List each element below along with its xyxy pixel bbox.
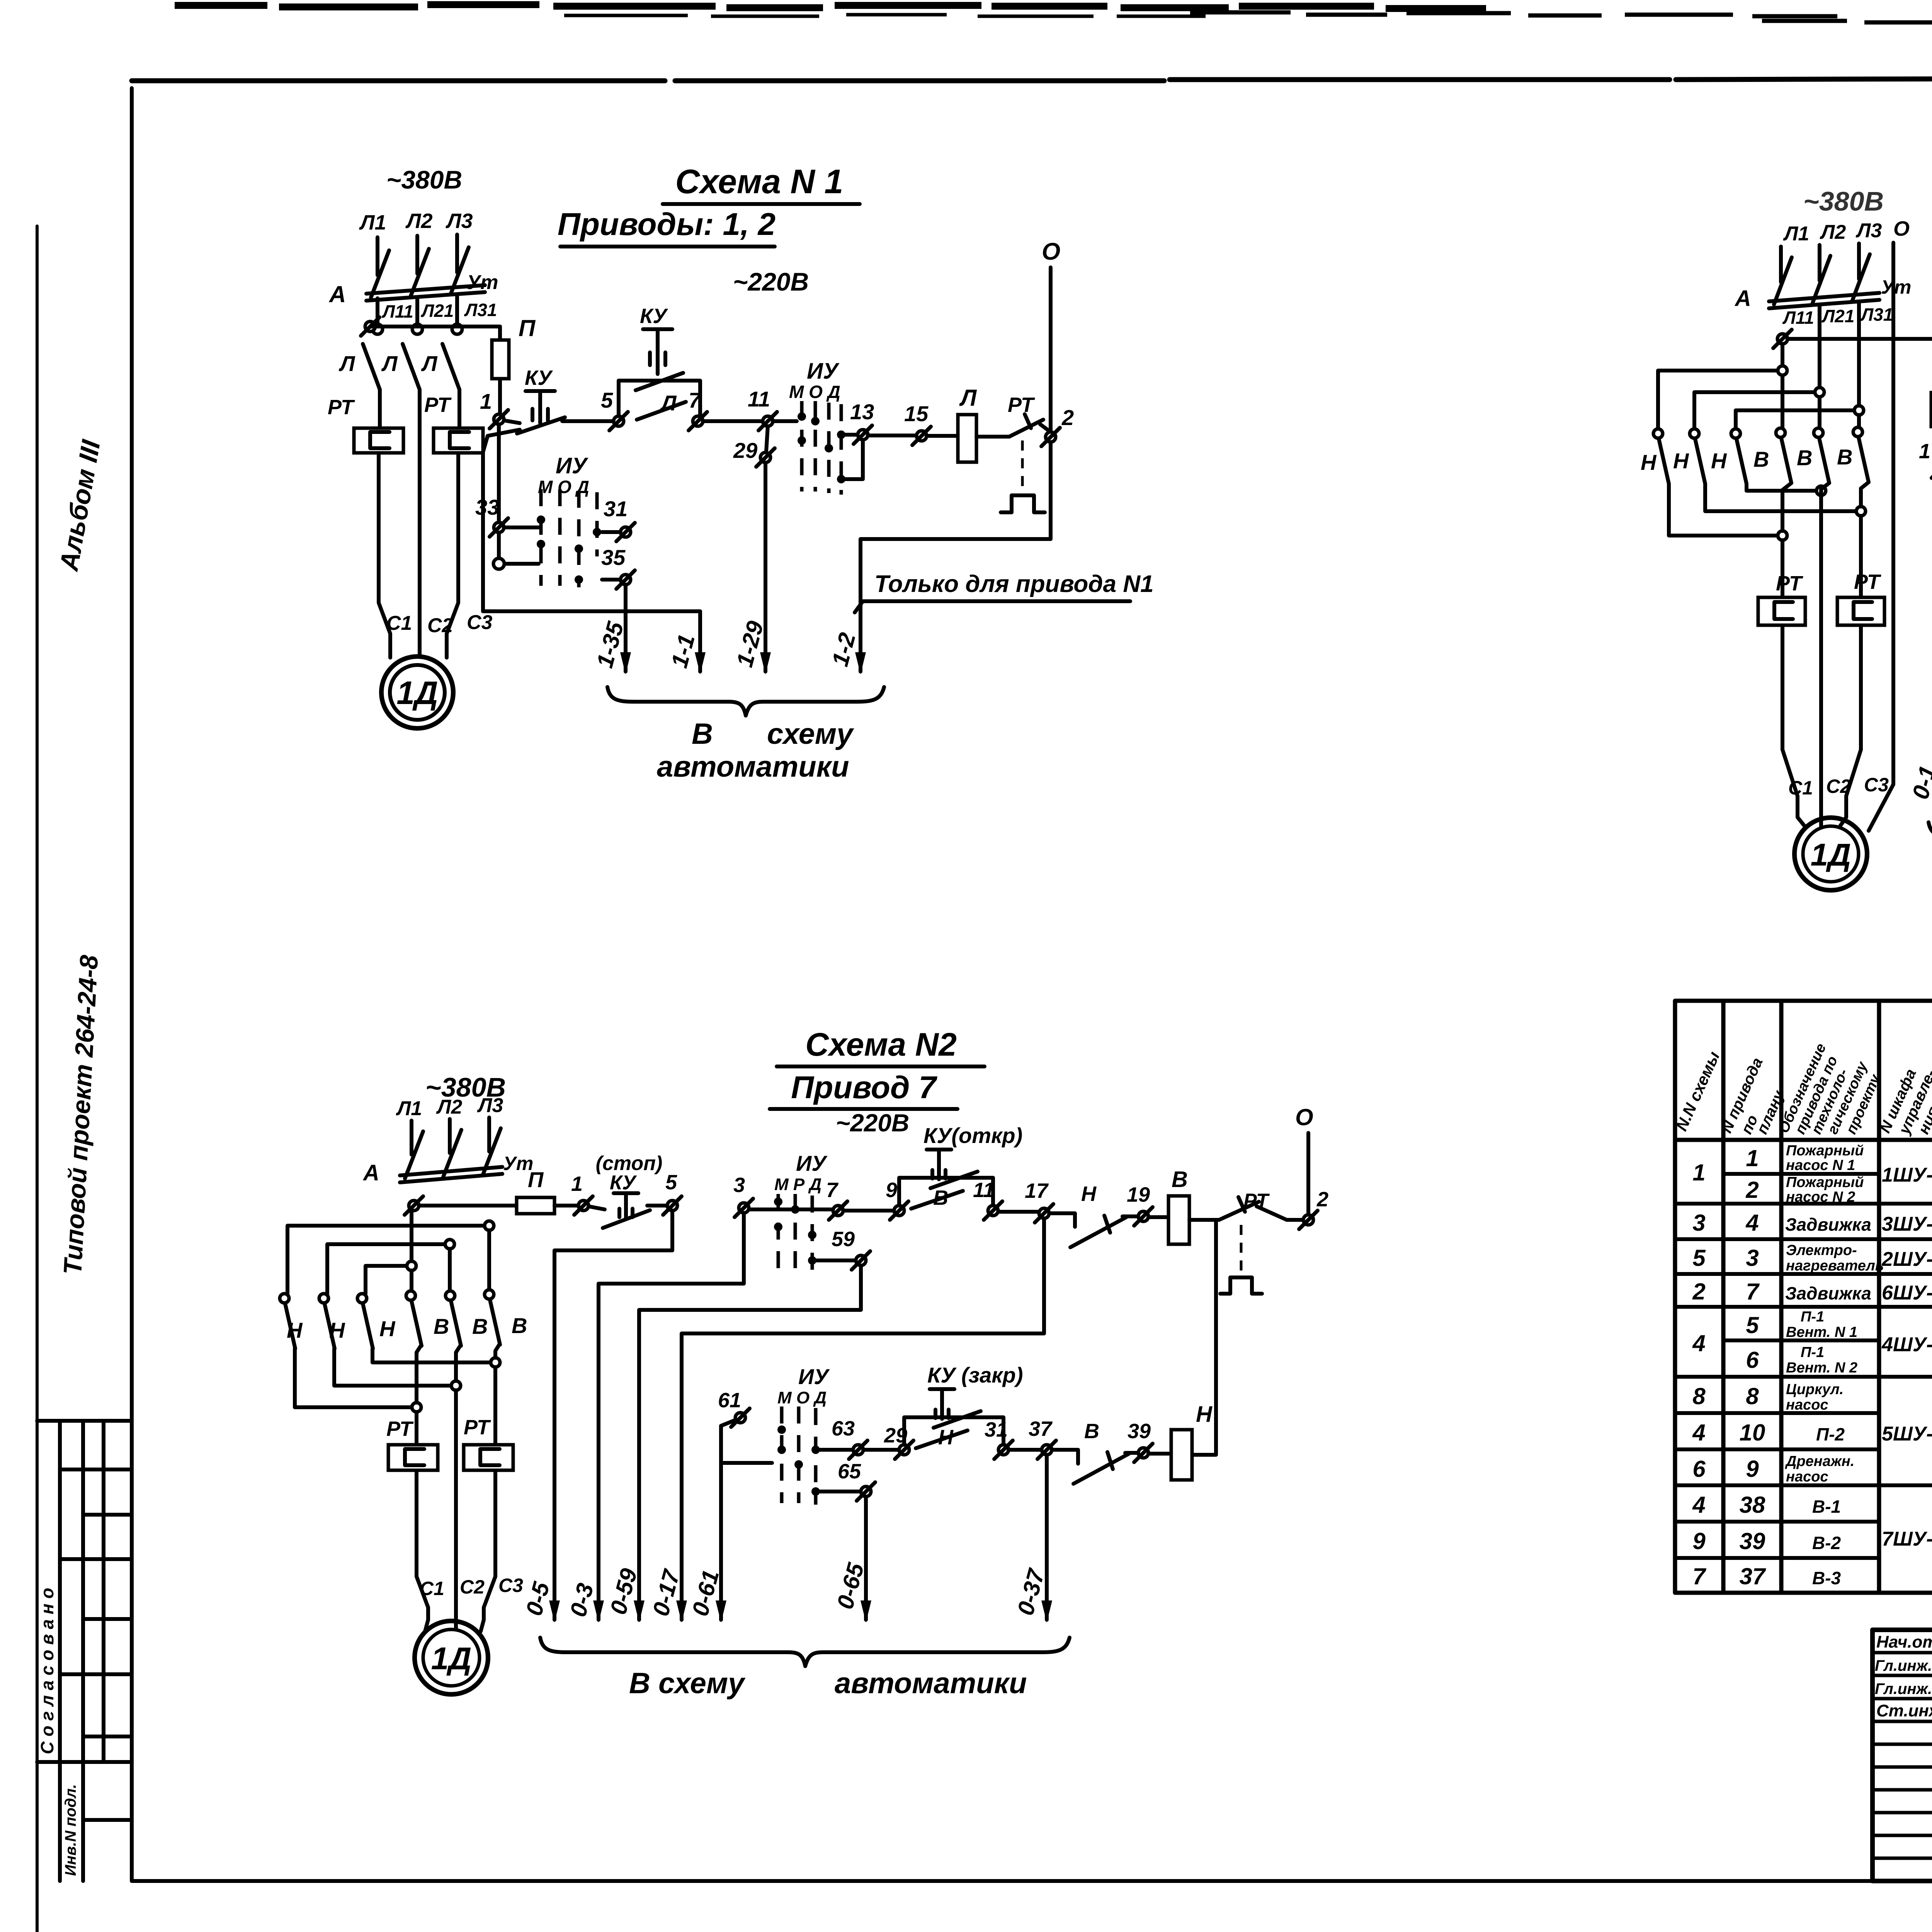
wire 33 to dashed: [504, 526, 539, 529]
motor s3 leads: [1798, 817, 1846, 827]
node 9 s2: [890, 1201, 908, 1220]
svg-text:Пожарный: Пожарный: [1786, 1174, 1864, 1190]
bus3 tap circle s2: [407, 1261, 416, 1270]
frame top line: [132, 77, 1932, 81]
wire to node 31: [602, 530, 621, 534]
svg-text:Только для привода N1: Только для привода N1: [874, 571, 1154, 597]
wire node1 to blade: [504, 420, 520, 423]
РТ heater s2: [1220, 1277, 1262, 1294]
start button КУ plunger: [643, 329, 672, 374]
svg-text:РТ: РТ: [1854, 570, 1881, 594]
svg-text:5: 5: [1692, 1245, 1706, 1271]
node 35: [616, 570, 635, 589]
motor 1Д inner: [390, 665, 445, 720]
svg-text:Л11: Л11: [1782, 308, 1814, 328]
wire 0-65 s2: [864, 1497, 868, 1620]
bus4 tap s3: [1816, 486, 1826, 495]
bus3 tap s3: [1854, 406, 1864, 415]
svg-text:С2: С2: [460, 1576, 485, 1598]
stop button blade s2: [603, 1210, 650, 1228]
svg-text:Л31: Л31: [464, 300, 497, 320]
svg-text:В: В: [692, 718, 713, 750]
svg-text:П-1: П-1: [1801, 1344, 1824, 1361]
wire 1-29 drop: [764, 463, 767, 672]
stub with jaw 1: [376, 298, 379, 323]
svg-text:7: 7: [689, 388, 702, 412]
svg-text:В-3: В-3: [1812, 1568, 1841, 1588]
svg-text:5: 5: [665, 1171, 677, 1194]
node 33: [490, 518, 508, 537]
disconnector blades s3: [1774, 254, 1870, 304]
svg-text:П-1: П-1: [1801, 1309, 1824, 1325]
svg-text:38: 38: [1740, 1492, 1765, 1518]
phase wires s3: [1781, 243, 1859, 282]
svg-text:Л: Л: [338, 351, 355, 376]
bus2 tap circle s2: [445, 1240, 454, 1249]
svg-text:Л: Л: [381, 351, 398, 376]
svg-text:Нач.отд: Нач.отд: [1876, 1633, 1932, 1651]
svg-text:7ШУ-С: 7ШУ-С: [1882, 1528, 1932, 1550]
blade Л1: [363, 344, 380, 389]
phase2 drop to hook5 s2: [448, 1249, 452, 1291]
node 5 s2: [663, 1196, 682, 1215]
node 11 s2: [984, 1201, 1002, 1220]
jaw circle 3: [452, 324, 462, 334]
start button bracket: [619, 381, 700, 416]
РТ contact blade: [1009, 414, 1043, 437]
svg-text:Л: Л: [660, 391, 677, 415]
elbow below node 13: [841, 440, 863, 479]
arrow 1-29: [760, 652, 771, 674]
phase drop 3: [447, 389, 459, 658]
wire 37 to В contact s2: [1052, 1450, 1078, 1464]
svg-text:3: 3: [733, 1173, 745, 1197]
svg-text:Н: Н: [1641, 450, 1657, 474]
bottom bus: [483, 609, 700, 613]
col3 values: [1785, 1143, 1884, 1588]
svg-text:С2: С2: [427, 614, 453, 637]
svg-text:Привод 7: Привод 7: [791, 1070, 937, 1105]
svg-text:Л3: Л3: [1855, 219, 1882, 242]
svg-text:Циркул.: Циркул.: [1786, 1381, 1844, 1398]
svg-text:Л3: Л3: [445, 209, 473, 233]
svg-text:Вент. N 2: Вент. N 2: [1786, 1360, 1857, 1376]
jaw circle 2: [412, 324, 422, 334]
svg-text:15: 15: [904, 401, 929, 426]
svg-text:КУ: КУ: [525, 366, 553, 389]
svg-text:Ут: Ут: [467, 271, 498, 294]
fuse П s3: [1931, 393, 1932, 427]
svg-text:4: 4: [1692, 1420, 1705, 1446]
svg-text:С3: С3: [467, 611, 493, 634]
О wire s3: [1869, 243, 1893, 831]
wire to node63 s2: [820, 1448, 853, 1452]
svg-text:2: 2: [1316, 1188, 1328, 1211]
svg-text:В: В: [1837, 445, 1852, 469]
svg-text:61: 61: [718, 1389, 741, 1412]
node 31: [616, 523, 635, 541]
svg-text:В: В: [1084, 1420, 1099, 1443]
fuse П: [492, 340, 509, 379]
svg-text:РТ: РТ: [386, 1417, 414, 1440]
wire blade to node5: [562, 419, 614, 423]
scan edge dashes top-left: [175, 5, 1486, 9]
wire 19 to coil s2: [1148, 1215, 1168, 1219]
column2 drop s2: [456, 1346, 460, 1620]
svg-text:4: 4: [1745, 1210, 1759, 1236]
wire 31 to 37 s2: [1009, 1448, 1042, 1452]
svg-text:ИУ: ИУ: [556, 453, 588, 478]
РТ box2 s3: [1837, 597, 1884, 625]
svg-text:С1: С1: [386, 612, 412, 634]
svg-text:39: 39: [1128, 1420, 1151, 1443]
contact dots: [798, 412, 845, 483]
subtitle underline: [770, 1107, 957, 1111]
В NC blade s2: [1073, 1452, 1129, 1484]
svg-text:ИУ: ИУ: [796, 1151, 828, 1175]
svg-text:6: 6: [1746, 1347, 1759, 1373]
bus left rise: [483, 430, 520, 611]
РТ blade s2: [1219, 1197, 1259, 1220]
svg-text:33: 33: [475, 495, 499, 519]
bus2 tap s3: [1815, 388, 1824, 397]
node 61 s2: [731, 1408, 750, 1427]
svg-text:11: 11: [748, 387, 770, 411]
РТ box2 s2: [464, 1445, 513, 1470]
node 13: [854, 425, 872, 444]
web bus1 s2: [287, 1226, 484, 1294]
full row lines: [1675, 1204, 1932, 1377]
hook circles s3: [1653, 427, 1862, 438]
arrow 0-65 s2: [861, 1600, 871, 1622]
svg-text:О: О: [1295, 1104, 1313, 1130]
wire 63 to 29 s2: [863, 1448, 899, 1452]
bus right drop: [698, 611, 702, 672]
svg-text:Гл.инж.пр.: Гл.инж.пр.: [1875, 1680, 1932, 1697]
brace s3: [1929, 822, 1932, 851]
node 63 s2: [849, 1440, 867, 1459]
В contact blade s2: [911, 1191, 963, 1209]
svg-text:Пожарный: Пожарный: [1786, 1143, 1864, 1159]
title underline: [777, 1065, 985, 1068]
svg-text:нагреватель: нагреватель: [1786, 1258, 1884, 1274]
svg-text:3ШУ-С: 3ШУ-С: [1882, 1213, 1932, 1235]
outer left line: [36, 226, 39, 1932]
svg-text:насос N 1: насос N 1: [1786, 1157, 1855, 1173]
blade Л2: [403, 344, 420, 389]
svg-text:Н: Н: [329, 1318, 345, 1342]
wire 15 to coil: [927, 434, 958, 438]
stop button КУ plunger: [526, 391, 555, 423]
svg-text:4ШУ-С: 4ШУ-С: [1881, 1333, 1932, 1356]
svg-text:насос: насос: [1786, 1397, 1828, 1413]
node 65 s2: [857, 1482, 875, 1501]
svg-text:Л2: Л2: [436, 1096, 463, 1118]
svg-text:В: В: [1172, 1167, 1188, 1192]
svg-text:М О Д: М О Д: [789, 382, 840, 402]
svg-text:В схему: В схему: [629, 1667, 746, 1700]
wire 11 to 17 s2: [998, 1210, 1039, 1214]
svg-text:9: 9: [1692, 1528, 1706, 1554]
svg-text:3: 3: [1692, 1210, 1705, 1236]
svg-text:Л21: Л21: [421, 301, 454, 321]
node on L1: [361, 317, 379, 336]
arrow 0-17 s2: [676, 1600, 687, 1622]
svg-text:6: 6: [1692, 1456, 1706, 1482]
wire to fuse: [370, 325, 500, 328]
bus6 tap circle s2: [491, 1358, 500, 1367]
jaw circle 1: [372, 324, 383, 334]
svg-text:~380В: ~380В: [386, 165, 462, 194]
elbow to node 13: [841, 433, 858, 437]
contactor contact Л3: [421, 344, 459, 389]
svg-text:1-1: 1-1: [666, 631, 700, 670]
svg-text:0-1: 0-1: [1907, 763, 1932, 802]
wire circle to dashed: [505, 562, 539, 566]
disconnector blades s2: [405, 1128, 501, 1179]
svg-text:Гл.инж.отд: Гл.инж.отд: [1875, 1657, 1932, 1674]
svg-text:РТ: РТ: [424, 393, 452, 417]
node on phase1 s2: [405, 1196, 423, 1215]
svg-text:1Д: 1Д: [1811, 837, 1851, 872]
bus5 tap circle s2: [451, 1381, 461, 1390]
svg-text:5: 5: [1746, 1312, 1759, 1338]
contactor contact Л1: [338, 344, 380, 389]
svg-text:Задвижка: Задвижка: [1785, 1214, 1871, 1235]
subtitle underline: [560, 245, 775, 248]
disconnector bar s2: [400, 1167, 502, 1182]
arrow 0-59 s2: [634, 1600, 645, 1622]
svg-text:Л1: Л1: [359, 211, 386, 234]
SCHEME3: [1641, 177, 1932, 1000]
stop button plunger s2: [614, 1193, 638, 1218]
svg-text:КУ(откр): КУ(откр): [923, 1123, 1022, 1148]
svg-text:РТ: РТ: [1008, 393, 1035, 417]
svg-text:17: 17: [1025, 1179, 1049, 1202]
svg-text:Н: Н: [1711, 449, 1727, 473]
phase drop 1: [379, 389, 390, 658]
dashed group2 s2: [782, 1406, 816, 1505]
svg-text:Инв.N подл.: Инв.N подл.: [62, 1784, 79, 1876]
wire 7 to 11: [703, 419, 763, 423]
phase wire L2: [415, 236, 419, 274]
bus5 tap s3: [1856, 507, 1866, 516]
wire 0-3 s2: [599, 1213, 744, 1620]
wire to node39 s2: [1125, 1451, 1138, 1455]
dots s2 group2: [777, 1425, 820, 1496]
svg-text:37: 37: [1740, 1563, 1766, 1589]
svg-text:6ШУ-С: 6ШУ-С: [1882, 1282, 1932, 1304]
svg-text:Н: Н: [379, 1316, 396, 1341]
stub to node 29: [766, 426, 768, 451]
svg-text:7: 7: [826, 1179, 839, 1202]
web bottom bus5 s3: [1705, 484, 1856, 511]
node 1 s3: [1932, 459, 1932, 478]
svg-text:В: В: [472, 1314, 488, 1338]
scan edge dashes top-right: [1762, 21, 1932, 26]
wire col3 to node59 s2: [816, 1259, 856, 1262]
svg-text:РТ: РТ: [1776, 572, 1803, 595]
col2 values: [1740, 1145, 1766, 1589]
svg-text:Задвижка: Задвижка: [1785, 1283, 1871, 1303]
svg-text:1Д: 1Д: [431, 1641, 472, 1676]
frame left line: [130, 88, 134, 1881]
web bus3 s3: [1736, 410, 1854, 428]
Н NC blade s2: [1070, 1216, 1126, 1247]
svg-text:Ут: Ут: [1881, 276, 1911, 298]
phase1 drop to hook4 s2: [410, 1211, 413, 1291]
coil В s2: [1168, 1196, 1189, 1244]
web bus2 s3: [1694, 392, 1815, 428]
КУ закр plunger s2: [930, 1389, 954, 1419]
brace В схему автоматики: [607, 687, 884, 716]
coil Н s2: [1171, 1430, 1192, 1480]
hook circles s2: [280, 1290, 494, 1303]
node on phase1 s3: [1773, 330, 1792, 348]
РТ heater link: [1021, 440, 1024, 494]
svg-text:5: 5: [601, 388, 613, 412]
РТ heater link s2: [1240, 1225, 1243, 1274]
bus1 tap s3: [1778, 366, 1787, 375]
dashed group 2 ИУ: [541, 489, 597, 587]
svg-text:А: А: [362, 1160, 379, 1185]
node 17 s2: [1035, 1204, 1053, 1223]
svg-text:Л11: Л11: [381, 301, 413, 321]
half row lines B: [1723, 1338, 1932, 1342]
TABLE: [1672, 1001, 1932, 1593]
motor 1Д outer: [381, 656, 453, 728]
svg-text:С3: С3: [1864, 774, 1889, 796]
svg-text:Схема N2: Схема N2: [805, 1026, 957, 1063]
svg-text:С1: С1: [420, 1578, 444, 1599]
svg-text:С2: С2: [1826, 776, 1851, 797]
motor s3 inner: [1803, 826, 1859, 882]
dashed group ИУ s2: [778, 1194, 812, 1279]
node 19 s2: [1134, 1207, 1153, 1226]
arrow 0-5 s2: [549, 1600, 560, 1622]
web bus2 s2: [327, 1244, 445, 1294]
svg-text:Л3: Л3: [477, 1094, 503, 1117]
stub with jaw 2: [415, 298, 419, 323]
half row lines A: [1723, 1172, 1932, 1176]
wire 1-35 drop: [624, 585, 628, 672]
col1 values: [1692, 1160, 1706, 1589]
svg-text:63: 63: [832, 1417, 855, 1440]
node 31 s2: [994, 1440, 1013, 1459]
svg-text:Л31: Л31: [1860, 304, 1893, 325]
svg-text:2: 2: [1061, 405, 1074, 430]
svg-text:1: 1: [1692, 1160, 1705, 1185]
Н bracket s2: [904, 1417, 1003, 1445]
node 3 s2: [735, 1199, 753, 1217]
svg-text:~380В: ~380В: [1803, 186, 1884, 216]
svg-text:4: 4: [1692, 1330, 1705, 1356]
node 11: [759, 412, 777, 430]
svg-text:1-2: 1-2: [827, 630, 861, 669]
disconnector blade 2: [411, 249, 429, 296]
column3 drop s2: [484, 1345, 499, 1620]
svg-text:РТ: РТ: [328, 396, 355, 419]
svg-text:В: В: [434, 1314, 449, 1338]
web bus3 s2: [366, 1266, 406, 1294]
svg-text:С3: С3: [498, 1575, 523, 1596]
svg-text:Л21: Л21: [1821, 306, 1855, 326]
РТ heater box 2: [434, 428, 483, 453]
motor s2 inner: [423, 1629, 480, 1686]
bus1 tap circle s2: [485, 1221, 494, 1230]
start button blade: [636, 373, 683, 390]
bus6 tap s3: [1778, 531, 1787, 540]
left mini table: [37, 1421, 132, 1881]
table vertical lines: [1723, 1001, 1932, 1593]
node 5: [609, 412, 628, 430]
title underline: [663, 202, 860, 206]
svg-text:10: 10: [1740, 1420, 1765, 1446]
arrow 0-3 s2: [593, 1600, 604, 1622]
column1 drop s2: [417, 1346, 428, 1620]
КУ откр plunger s2: [927, 1150, 951, 1179]
node 39 s2: [1134, 1444, 1153, 1462]
blade on Н bracket s2: [934, 1411, 981, 1428]
svg-text:65: 65: [838, 1460, 861, 1483]
wire 0-61 s2: [719, 1463, 723, 1620]
wire 39 to Н coil s2: [1148, 1452, 1171, 1456]
arrow 0-37 s2: [1041, 1600, 1052, 1622]
svg-text:насос N 2: насос N 2: [1786, 1189, 1855, 1205]
svg-text:31: 31: [604, 497, 628, 521]
svg-text:КУ: КУ: [610, 1172, 637, 1194]
svg-text:2ШУ-С: 2ШУ-С: [1881, 1248, 1932, 1270]
scan edge dashes top-mid: [1190, 12, 1837, 16]
wire 33 down: [497, 532, 501, 558]
motor s2 leads: [425, 1620, 484, 1631]
svg-text:37: 37: [1029, 1417, 1053, 1440]
РТ box1 s2: [388, 1445, 438, 1470]
motor s2 outer: [415, 1621, 488, 1694]
svg-text:М О Д: М О Д: [538, 477, 589, 497]
svg-text:0-3: 0-3: [565, 1580, 599, 1619]
svg-text:Л2: Л2: [405, 209, 432, 233]
svg-text:А: А: [328, 281, 346, 307]
svg-text:0-5: 0-5: [521, 1579, 555, 1619]
brace s2: [540, 1638, 1070, 1666]
node 2 s2: [1299, 1211, 1318, 1229]
svg-text:9: 9: [886, 1179, 897, 1202]
contactor contact Л2: [381, 344, 420, 389]
svg-text:В: В: [1797, 446, 1812, 470]
SCHEME1: [328, 162, 1154, 783]
svg-text:Л2: Л2: [1820, 221, 1846, 243]
wire 7 to 9 s2: [843, 1209, 894, 1213]
svg-text:35: 35: [601, 545, 626, 570]
svg-text:7: 7: [1746, 1279, 1760, 1304]
phase drops to hooks s3: [1782, 303, 1859, 427]
node 37 s2: [1037, 1440, 1056, 1459]
open contact circle: [493, 558, 504, 569]
svg-text:1: 1: [1919, 440, 1930, 463]
bus4 tap circle s2: [412, 1403, 421, 1412]
contact Л blade: [637, 402, 686, 420]
svg-text:1: 1: [571, 1172, 583, 1196]
svg-text:ИУ: ИУ: [807, 359, 840, 384]
wire 17 to Н contact s2: [1049, 1213, 1075, 1227]
svg-text:С о г л а с о в а н о: С о г л а с о в а н о: [37, 1588, 57, 1754]
column1 s3: [1782, 483, 1798, 817]
svg-text:N.N схемы: N.N схемы: [1672, 1049, 1723, 1134]
svg-text:В: В: [512, 1313, 527, 1338]
svg-text:насос: насос: [1786, 1469, 1828, 1485]
svg-text:ИУ: ИУ: [798, 1364, 830, 1389]
